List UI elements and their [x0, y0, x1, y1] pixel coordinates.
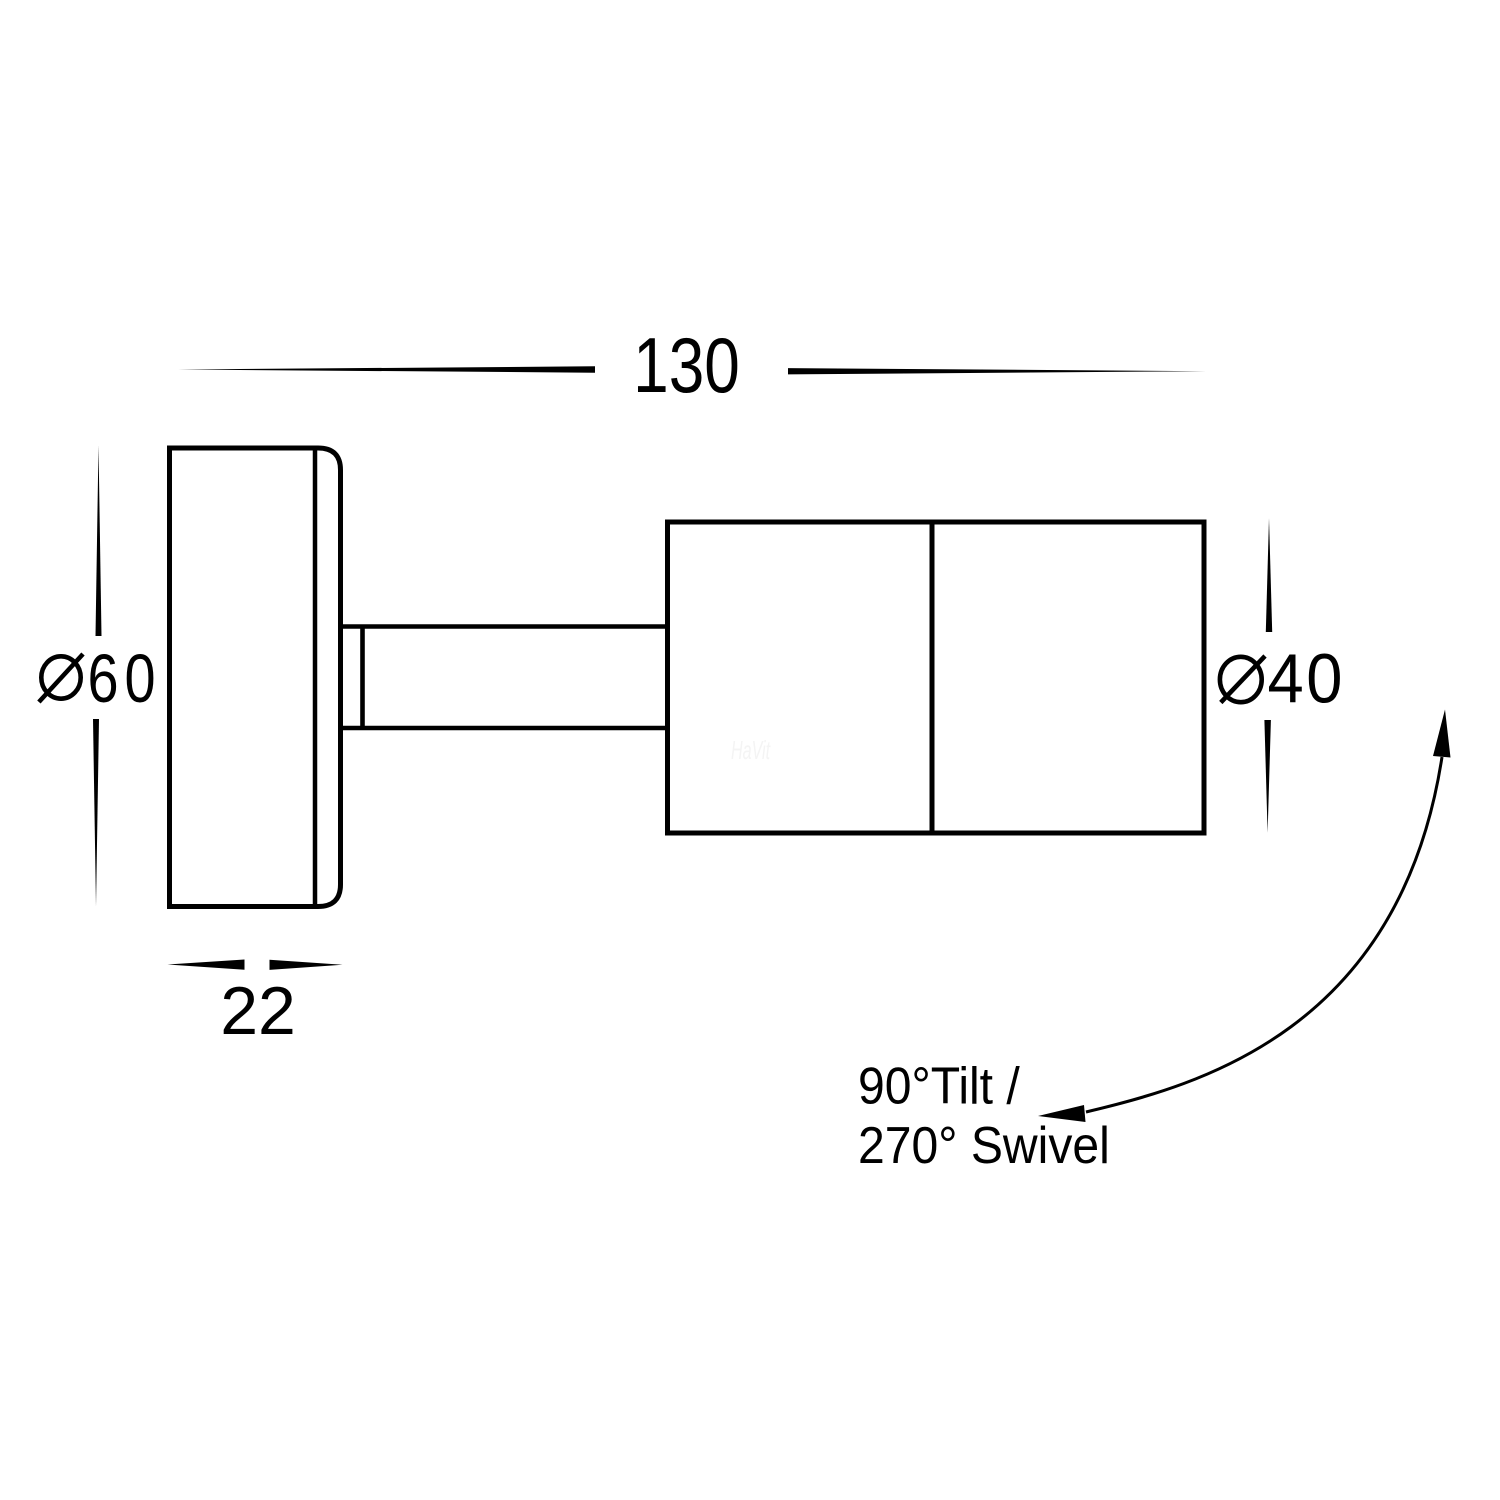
svg-text:90°Tilt /: 90°Tilt /	[858, 1057, 1020, 1115]
arm bottom line	[341, 726, 668, 731]
svg-text:270° Swivel: 270° Swivel	[858, 1116, 1110, 1174]
dimension Ø60 label diameter circle	[41, 656, 80, 698]
svg-text:130: 130	[633, 322, 740, 409]
dimension Ø40 upper arrow wedge	[1266, 518, 1272, 632]
dimension 22 right arrow wedge	[270, 960, 343, 970]
svg-text:HaVit: HaVit	[731, 735, 771, 765]
swivel arc left arrowhead	[1038, 1105, 1086, 1122]
dimension Ø40 label diameter slash	[1221, 656, 1265, 703]
light body outline	[668, 522, 1205, 833]
dimension 130 right arrow wedge	[788, 368, 1206, 374]
light body divider line	[930, 522, 935, 833]
swivel arc curve	[1086, 757, 1442, 1112]
wall plate outline	[170, 448, 341, 907]
arm collar tick	[360, 627, 365, 729]
dimension Ø40 label diameter circle	[1220, 657, 1262, 702]
swivel arc top arrowhead	[1433, 710, 1451, 758]
dimension 22 left arrow wedge	[168, 960, 245, 970]
dimension Ø60 label diameter slash	[39, 654, 83, 702]
dimension 130 left arrow wedge	[178, 366, 595, 372]
dimension Ø40 lower arrow wedge	[1264, 720, 1271, 833]
svg-text:22: 22	[220, 973, 296, 1049]
dimension Ø60 upper arrow wedge	[96, 446, 102, 637]
wall plate inner edge line	[313, 448, 318, 907]
arm top line	[341, 624, 668, 629]
svg-text:40: 40	[1268, 640, 1345, 718]
svg-text:60: 60	[88, 640, 162, 717]
dimension Ø60 lower arrow wedge	[93, 719, 99, 907]
